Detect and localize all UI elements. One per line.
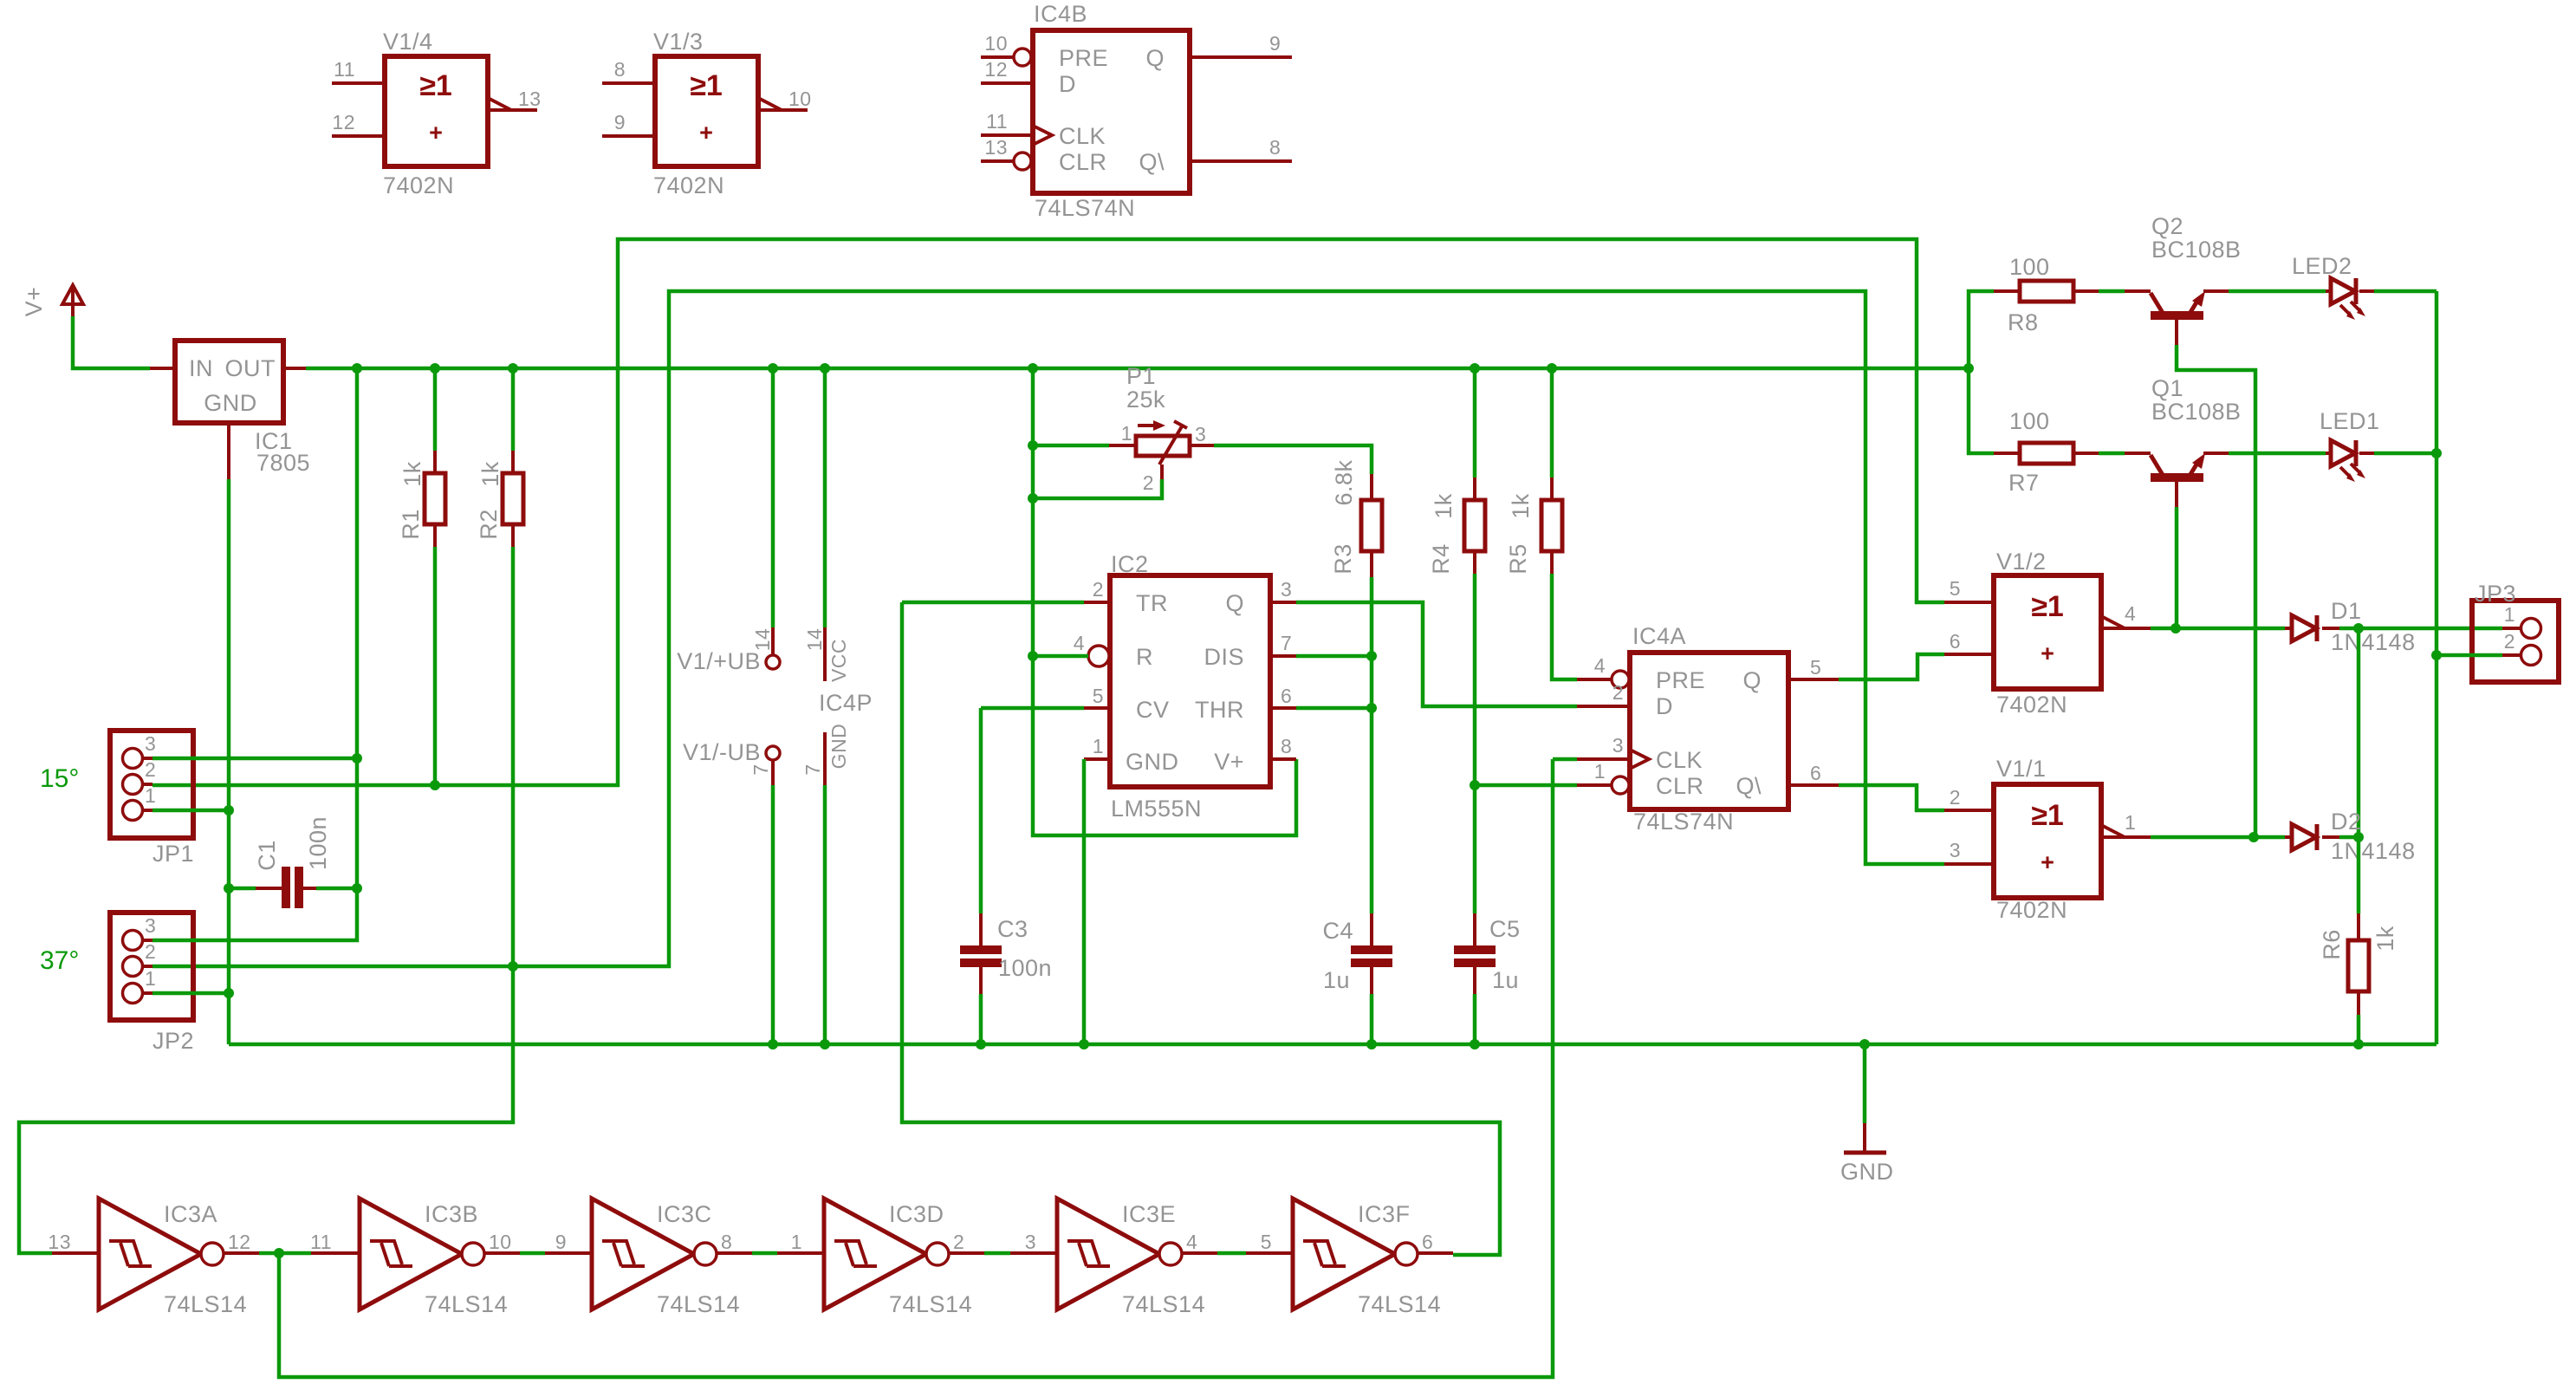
svg-text:7402N: 7402N	[1996, 692, 2067, 718]
capacitor C4 1u	[1322, 913, 1392, 1044]
svg-text:74LS14: 74LS14	[164, 1291, 247, 1317]
wire R3 bottom / DIS / THR / C4 vertical	[1370, 577, 1374, 913]
svg-text:1k: 1k	[2372, 926, 2398, 952]
flip-flop IC4A 74LS74N	[1577, 623, 1839, 835]
svg-text:4: 4	[1186, 1231, 1197, 1253]
svg-text:CLR: CLR	[1059, 149, 1107, 175]
capacitor C3 100n	[960, 913, 1052, 1044]
wire IC3A out to IC3B in	[259, 1251, 311, 1256]
svg-text:15°: 15°	[40, 764, 79, 793]
svg-text:74LS74N: 74LS74N	[1633, 809, 1734, 835]
svg-text:100n: 100n	[998, 955, 1052, 981]
svg-text:IC3D: IC3D	[889, 1201, 944, 1227]
wire 555 DIS pin7	[1296, 654, 1372, 659]
svg-text:Q: Q	[1742, 667, 1762, 693]
resistor R4 1k	[1428, 368, 1485, 575]
wire 555 R pin4	[1033, 654, 1088, 659]
connector JP2	[110, 913, 194, 1054]
NOR gate V1/2	[1944, 549, 2151, 718]
wire V1/1 output to D2	[2151, 835, 2285, 840]
wire LED1 to right rail	[2374, 452, 2436, 456]
svg-text:≥1: ≥1	[419, 69, 452, 102]
svg-text:74LS14: 74LS14	[889, 1291, 972, 1317]
svg-text:7402N: 7402N	[383, 172, 454, 198]
svg-text:Q2: Q2	[2151, 213, 2183, 239]
wire IC4A Q to V1/2 pin6	[1839, 654, 1944, 679]
wire D junction down to R6	[2357, 837, 2361, 913]
svg-text:+: +	[699, 120, 713, 146]
wire LED2 to right rail	[2374, 289, 2436, 294]
svg-text:6: 6	[1810, 762, 1821, 784]
svg-text:1u: 1u	[1323, 967, 1350, 993]
inverter IC3A 74LS14	[48, 1199, 259, 1317]
svg-text:11: 11	[310, 1231, 332, 1253]
svg-text:V+: V+	[21, 287, 47, 317]
wire 555 GND pin1 down	[1082, 759, 1087, 1044]
svg-text:2: 2	[1143, 471, 1154, 494]
inverter IC3D 74LS14	[791, 1199, 984, 1317]
svg-text:74LS14: 74LS14	[1358, 1291, 1441, 1317]
svg-text:V1/1: V1/1	[1996, 756, 2047, 782]
svg-text:C5: C5	[1489, 916, 1521, 942]
svg-text:R4: R4	[1428, 543, 1454, 575]
wire TR feed vertical to IC3F output	[902, 602, 1500, 1255]
wire JP1 pin1	[152, 809, 229, 813]
svg-text:4: 4	[1074, 632, 1085, 654]
svg-text:DIS: DIS	[1204, 644, 1244, 670]
wire Q1 collector down to V1/2 output net	[2175, 507, 2179, 628]
svg-text:CLK: CLK	[1059, 123, 1106, 149]
svg-text:D2: D2	[2331, 809, 2362, 835]
svg-text:12: 12	[332, 111, 355, 133]
svg-text:GND: GND	[1840, 1159, 1894, 1185]
wire IC3B out to IC3C in	[520, 1251, 545, 1256]
svg-text:V1/3: V1/3	[653, 29, 704, 55]
resistor R1	[398, 368, 445, 547]
wire D2 cathode to R6 junction	[2339, 835, 2359, 840]
IC4P power pin V1/+UB	[677, 368, 780, 674]
wire 555 THR pin6	[1296, 706, 1372, 711]
svg-text:1k: 1k	[477, 461, 503, 487]
svg-text:10: 10	[489, 1231, 512, 1253]
svg-text:BC108B: BC108B	[2151, 237, 2242, 263]
wire IC3C out to IC3D in	[752, 1251, 777, 1256]
svg-text:74LS14: 74LS14	[657, 1291, 740, 1317]
svg-text:VCC: VCC	[827, 639, 850, 682]
wire IC3E out to IC3F in	[1217, 1251, 1246, 1256]
svg-text:IC4P: IC4P	[819, 690, 873, 716]
connector JP3	[2472, 581, 2559, 682]
svg-text:3: 3	[1195, 423, 1206, 445]
svg-text:GND: GND	[1126, 749, 1179, 775]
IC4P power pin VCC 14	[803, 368, 873, 716]
svg-text:1k: 1k	[1431, 493, 1457, 519]
svg-text:7402N: 7402N	[1996, 897, 2067, 923]
svg-text:GND: GND	[827, 724, 850, 770]
svg-text:6: 6	[1281, 685, 1292, 707]
connector JP1	[110, 731, 194, 867]
svg-text:13: 13	[984, 136, 1008, 159]
svg-text:JP1: JP1	[152, 841, 194, 867]
wire Q1 emitter to LED1	[2229, 452, 2326, 456]
svg-text:100: 100	[2009, 254, 2050, 280]
svg-text:9: 9	[614, 111, 626, 133]
svg-text:+: +	[429, 120, 443, 146]
svg-text:GND: GND	[204, 390, 257, 416]
svg-text:R7: R7	[2008, 470, 2040, 496]
wire D1/D2 cathode vertical	[2357, 628, 2361, 837]
NOR gate V1/1	[1944, 756, 2151, 923]
svg-text:100: 100	[2009, 408, 2050, 434]
wire P1 pin1	[1033, 444, 1109, 448]
svg-text:P1: P1	[1126, 363, 1156, 389]
ground symbol GND	[1840, 1044, 1894, 1185]
svg-text:V1/+UB: V1/+UB	[677, 648, 761, 674]
svg-text:2: 2	[1950, 786, 1961, 809]
svg-text:OUT: OUT	[225, 355, 276, 381]
wire V+ vertical through P1 to 555 V+ pin8	[1033, 368, 1296, 835]
svg-text:Q1: Q1	[2151, 375, 2183, 401]
svg-text:Q: Q	[1145, 45, 1165, 71]
svg-text:≥1: ≥1	[2031, 590, 2064, 623]
svg-text:D1: D1	[2331, 598, 2362, 624]
svg-text:7805: 7805	[256, 450, 310, 476]
diode D1 1N4148	[2285, 598, 2416, 655]
svg-text:IC3B: IC3B	[425, 1201, 478, 1227]
resistor R2	[476, 368, 523, 547]
svg-text:7: 7	[801, 763, 824, 775]
wire JP1 pin3	[152, 757, 357, 761]
NOR gate V1/4	[332, 29, 542, 198]
inverter IC3C 74LS14	[555, 1199, 752, 1317]
svg-text:11: 11	[986, 110, 1008, 133]
wire R1 bottom to JP1 pin2 net	[433, 547, 438, 785]
svg-text:BC108B: BC108B	[2151, 399, 2242, 425]
wire JP2 pin2 to second rail to V1/1 pin3	[152, 291, 1944, 966]
wire LED cathode rail down to GND rail	[2435, 291, 2439, 1044]
svg-text:≥1: ≥1	[2031, 799, 2064, 832]
svg-text:PRE: PRE	[1059, 45, 1108, 71]
svg-text:74LS74N: 74LS74N	[1035, 195, 1135, 221]
wire V+ to IC1 IN	[73, 316, 150, 368]
resistor R5 1k	[1505, 368, 1562, 575]
svg-text:3: 3	[1025, 1231, 1036, 1253]
wire 555 TR pin2 from oscillator	[902, 601, 1084, 605]
svg-text:1: 1	[791, 1231, 802, 1253]
svg-text:PRE: PRE	[1656, 667, 1705, 693]
svg-text:V1/2: V1/2	[1996, 549, 2047, 575]
svg-text:74LS14: 74LS14	[425, 1291, 508, 1317]
wire Q2 collector dogleg down to V1/1 output net	[2177, 345, 2255, 837]
svg-text:C4: C4	[1322, 918, 1353, 944]
svg-text:IN: IN	[189, 355, 213, 381]
svg-text:3: 3	[1281, 578, 1292, 601]
svg-text:8: 8	[614, 58, 626, 81]
svg-text:1: 1	[1093, 735, 1104, 757]
svg-text:100n: 100n	[305, 816, 331, 870]
svg-text:8: 8	[721, 1231, 732, 1253]
svg-text:C1: C1	[254, 840, 280, 871]
wire JP3 pin2	[2436, 653, 2502, 658]
transistor Q1 BC108B	[2125, 375, 2242, 507]
svg-text:14: 14	[803, 628, 826, 652]
svg-text:11: 11	[334, 58, 355, 81]
resistor R6 1k	[2319, 913, 2398, 1044]
svg-text:3: 3	[1950, 839, 1961, 861]
svg-text:2: 2	[2504, 630, 2515, 653]
svg-text:IC3C: IC3C	[657, 1201, 712, 1227]
wire 555 Q pin3 to IC4A D	[1296, 602, 1577, 706]
capacitor C5 1u	[1454, 913, 1521, 1044]
inverter IC3F 74LS14	[1261, 1199, 1453, 1317]
svg-text:IC2: IC2	[1111, 551, 1149, 577]
svg-text:2: 2	[145, 758, 156, 781]
svg-text:1k: 1k	[399, 461, 425, 487]
svg-text:7402N: 7402N	[653, 172, 724, 198]
wire IC3D out to IC3E in	[984, 1251, 1010, 1256]
svg-text:R: R	[1136, 644, 1153, 670]
wire IC1 GND down	[227, 479, 231, 1044]
svg-text:Q\: Q\	[1139, 149, 1165, 175]
svg-text:V1/-UB: V1/-UB	[683, 739, 761, 765]
svg-text:IC4B: IC4B	[1034, 1, 1087, 27]
svg-text:6: 6	[1422, 1231, 1433, 1253]
svg-text:THR: THR	[1195, 697, 1244, 723]
svg-text:1u: 1u	[1492, 967, 1519, 993]
svg-text:CV: CV	[1136, 697, 1170, 723]
svg-text:10: 10	[788, 88, 812, 110]
svg-text:74LS14: 74LS14	[1122, 1291, 1205, 1317]
svg-text:13: 13	[518, 88, 542, 110]
IC4P power pin V1/-UB	[683, 739, 780, 1044]
svg-text:IC3E: IC3E	[1122, 1201, 1176, 1227]
wire IC4A Q\ to V1/1 pin2	[1839, 785, 1944, 810]
svg-text:R1: R1	[398, 509, 424, 540]
wire D1 cathode to JP3 pin1	[2339, 627, 2502, 631]
svg-text:IC3F: IC3F	[1358, 1201, 1411, 1227]
svg-text:7: 7	[749, 763, 772, 775]
wire JP1 pin2 to top rail to V1/2 pin5	[152, 239, 1944, 785]
svg-text:12: 12	[984, 58, 1008, 81]
flip-flop IC4B 74LS74N	[981, 1, 1292, 221]
svg-text:R8: R8	[2008, 309, 2039, 335]
svg-text:D: D	[1656, 693, 1673, 719]
svg-text:5: 5	[1810, 656, 1821, 679]
wire +5V up/down to R8 R7	[1969, 291, 1994, 453]
wire P1 pin3 to R3 top	[1214, 445, 1372, 474]
svg-text:1: 1	[1594, 760, 1606, 783]
svg-text:1k: 1k	[1508, 493, 1534, 519]
svg-text:1: 1	[145, 784, 156, 807]
svg-text:≥1: ≥1	[690, 69, 723, 102]
svg-text:1: 1	[2125, 811, 2136, 834]
wire R8 to Q2 base	[2099, 289, 2125, 294]
svg-text:3: 3	[145, 914, 156, 937]
svg-text:10: 10	[984, 32, 1008, 55]
wire +5V OUT net	[306, 367, 1969, 371]
power symbol V+	[21, 285, 83, 316]
svg-text:2: 2	[145, 940, 156, 963]
svg-text:CLK: CLK	[1656, 747, 1703, 773]
svg-text:8: 8	[1269, 136, 1281, 159]
wire R7 to Q1 base	[2099, 452, 2125, 456]
svg-text:5: 5	[1261, 1231, 1272, 1253]
NOR gate V1/3	[602, 29, 812, 198]
svg-text:5: 5	[1093, 685, 1104, 707]
svg-text:6.8k: 6.8k	[1331, 459, 1357, 505]
wire IC4A CLK from oscillator	[279, 759, 1577, 1377]
svg-text:LM555N: LM555N	[1111, 796, 1202, 822]
diode D2 1N4148	[2285, 809, 2416, 864]
svg-text:C3: C3	[997, 916, 1028, 942]
wire R4 bottom / CLR / C5 vertical	[1473, 574, 1477, 913]
svg-text:12: 12	[228, 1231, 251, 1253]
transistor Q2 BC108B	[2125, 213, 2242, 345]
wire P1 pin2 wiper	[1033, 479, 1162, 498]
inverter IC3E 74LS14	[1025, 1199, 1217, 1317]
wire Q2 emitter to LED2	[2229, 289, 2326, 294]
svg-text:1: 1	[1121, 422, 1132, 445]
svg-text:D: D	[1059, 71, 1076, 97]
svg-text:6: 6	[1950, 630, 1961, 653]
svg-text:R3: R3	[1330, 543, 1356, 575]
svg-text:Q\: Q\	[1736, 773, 1762, 799]
resistor R3 6.8k	[1330, 459, 1382, 577]
capacitor C1	[229, 816, 357, 908]
wire JP2 pin1	[152, 991, 229, 996]
svg-text:Q: Q	[1225, 590, 1244, 616]
wire IC4A CLR from R4 net	[1475, 783, 1577, 788]
wire V1/2 output to D1	[2151, 627, 2285, 631]
voltage regulator IC1 7805	[150, 341, 310, 479]
svg-text:2: 2	[1612, 681, 1624, 704]
svg-text:3: 3	[145, 732, 156, 755]
svg-text:CLR: CLR	[1656, 773, 1704, 799]
potentiometer P1 25k	[1109, 363, 1214, 494]
svg-text:LED1: LED1	[2320, 408, 2380, 434]
svg-text:V1/4: V1/4	[383, 29, 433, 55]
svg-text:8: 8	[1281, 735, 1292, 757]
wire 555 CV pin5 to C3	[981, 708, 1084, 913]
svg-text:R5: R5	[1505, 543, 1531, 575]
svg-text:37°: 37°	[40, 946, 79, 975]
svg-text:7: 7	[1281, 632, 1292, 654]
svg-text:2: 2	[1093, 578, 1104, 601]
svg-text:1N4148: 1N4148	[2331, 838, 2416, 864]
svg-text:4: 4	[1594, 654, 1606, 677]
svg-text:IC4A: IC4A	[1632, 623, 1686, 649]
svg-text:2: 2	[953, 1231, 964, 1253]
wire R2 bottom to IC3A input	[19, 547, 513, 1253]
inverter IC3B 74LS14	[310, 1199, 520, 1317]
svg-text:3: 3	[1612, 734, 1624, 757]
LED LED1	[2320, 408, 2380, 482]
wire GND rail	[229, 1043, 2436, 1047]
timer IC2 LM555N	[1074, 551, 1296, 822]
svg-text:V+: V+	[1214, 749, 1244, 775]
svg-text:+: +	[2041, 849, 2054, 875]
svg-text:1: 1	[145, 967, 156, 990]
resistor R7 100	[1994, 408, 2099, 496]
LED LED2	[2292, 253, 2374, 320]
svg-text:JP3: JP3	[2475, 581, 2516, 607]
svg-text:9: 9	[555, 1231, 567, 1253]
svg-text:4: 4	[2125, 602, 2136, 625]
svg-text:14: 14	[751, 628, 774, 652]
wire JP1 pin3 / C1 / JP2 pin3 vertical	[152, 368, 357, 940]
IC4P power pin GND 7	[801, 724, 850, 1044]
svg-text:TR: TR	[1136, 590, 1168, 616]
svg-text:+: +	[2041, 640, 2054, 666]
svg-text:IC3A: IC3A	[164, 1201, 217, 1227]
svg-text:9: 9	[1269, 32, 1281, 55]
svg-text:25k: 25k	[1126, 387, 1165, 413]
svg-text:LED2: LED2	[2292, 253, 2352, 279]
svg-text:JP2: JP2	[152, 1028, 194, 1054]
wire R5 bottom to IC4A PRE	[1552, 574, 1577, 679]
svg-text:13: 13	[48, 1231, 71, 1253]
svg-text:R2: R2	[476, 509, 502, 540]
svg-text:5: 5	[1950, 577, 1961, 600]
svg-text:R6: R6	[2319, 929, 2345, 960]
svg-text:1N4148: 1N4148	[2331, 629, 2416, 655]
resistor R8 100	[1994, 254, 2099, 335]
